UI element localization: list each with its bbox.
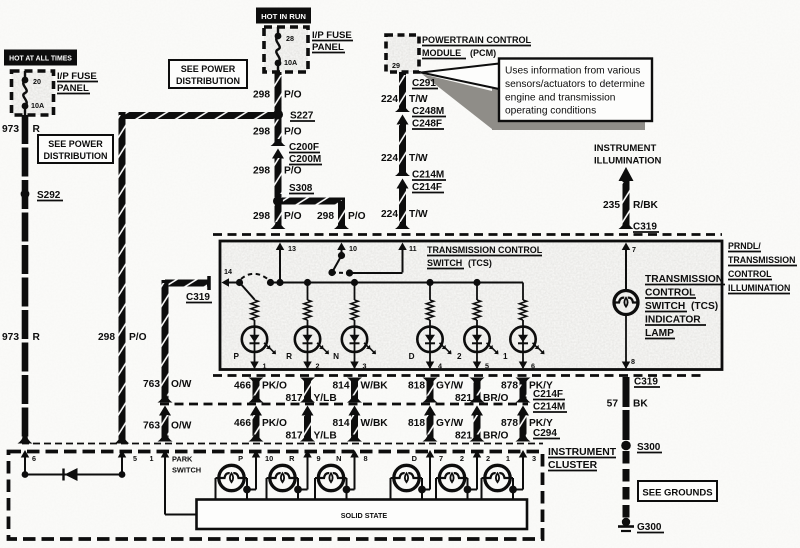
svg-text:I/P FUSE: I/P FUSE bbox=[312, 30, 352, 41]
svg-text:PK/O: PK/O bbox=[262, 418, 287, 429]
svg-text:2: 2 bbox=[460, 454, 464, 463]
svg-text:TRANSMISSION CONTROL: TRANSMISSION CONTROL bbox=[427, 245, 543, 255]
connector C248M/C248F inline bbox=[397, 115, 409, 125]
svg-text:235: 235 bbox=[603, 200, 620, 211]
power feed label HOT IN RUN bbox=[256, 8, 311, 24]
svg-text:R: R bbox=[286, 352, 292, 361]
wire 763 O/W vertical segment 2 bbox=[162, 412, 169, 440]
wire 821 BR/O upper segment bbox=[474, 378, 481, 400]
svg-text:C319: C319 bbox=[634, 377, 658, 388]
svg-text:BR/O: BR/O bbox=[483, 431, 509, 442]
svg-text:S292: S292 bbox=[37, 190, 61, 201]
wire LED P to pin 1 bbox=[254, 352, 256, 368]
lamp R right lead junction bbox=[295, 477, 298, 479]
svg-text:INSTRUMENT: INSTRUMENT bbox=[594, 143, 656, 154]
svg-text:3: 3 bbox=[532, 454, 536, 463]
svg-text:SWITCH: SWITCH bbox=[172, 466, 201, 475]
callout note box bbox=[499, 59, 652, 122]
wire 298 P/O segment C200 to S308 bbox=[275, 155, 282, 197]
ground wire S300 to G300 bbox=[623, 451, 630, 519]
svg-text:Y/LB: Y/LB bbox=[314, 393, 337, 404]
svg-text:operating conditions: operating conditions bbox=[505, 106, 596, 117]
svg-text:1: 1 bbox=[506, 454, 510, 463]
svg-text:763: 763 bbox=[143, 379, 160, 390]
TCS indicator lamp bbox=[614, 291, 638, 315]
svg-text:R/BK: R/BK bbox=[633, 200, 659, 211]
wire 466 PK/O lower segment bbox=[250, 406, 262, 416]
svg-text:28: 28 bbox=[286, 34, 294, 43]
wire 224 T/W segment PCM to C248 bbox=[399, 72, 406, 109]
svg-text:CONTROL: CONTROL bbox=[645, 288, 695, 299]
lamp 1 left lead to solid state bbox=[482, 477, 485, 479]
wire 878 PK/Y upper segment bbox=[520, 378, 527, 400]
TCS pin 7 bbox=[622, 243, 631, 251]
svg-text:DISTRIBUTION: DISTRIBUTION bbox=[176, 76, 240, 86]
connector C200F/C200M inline bbox=[272, 149, 284, 159]
cluster pin 6 entry bbox=[21, 450, 30, 458]
svg-text:298: 298 bbox=[98, 332, 115, 343]
svg-text:10: 10 bbox=[349, 244, 357, 253]
svg-text:O/W: O/W bbox=[171, 379, 192, 390]
svg-text:GY/W: GY/W bbox=[436, 381, 464, 392]
wire 235 R/BK bbox=[623, 179, 630, 229]
svg-text:C200M: C200M bbox=[289, 154, 321, 165]
wire 57 BK bbox=[623, 377, 630, 445]
pin 14 circuit: wire 763 horizontal to C319 bbox=[165, 280, 210, 287]
svg-text:T/W: T/W bbox=[409, 209, 428, 220]
svg-text:R: R bbox=[33, 124, 41, 135]
svg-text:HOT AT ALL TIMES: HOT AT ALL TIMES bbox=[9, 56, 72, 63]
wire 817 Y/LB lower segment bbox=[302, 406, 314, 416]
svg-text:224: 224 bbox=[381, 153, 398, 164]
svg-text:PANEL: PANEL bbox=[57, 83, 89, 94]
svg-text:G300: G300 bbox=[637, 522, 662, 533]
svg-text:P/O: P/O bbox=[284, 127, 302, 138]
svg-text:20: 20 bbox=[33, 77, 41, 86]
instrument cluster connector dashed line bbox=[22, 443, 543, 445]
bus junction x=354.5 bbox=[351, 279, 358, 286]
SOLID STATE module box bbox=[197, 500, 528, 530]
svg-text:S308: S308 bbox=[289, 183, 313, 194]
wire 466 PK/O upper segment bbox=[253, 378, 260, 400]
svg-text:P/O: P/O bbox=[348, 211, 366, 222]
svg-text:INSTRUMENT: INSTRUMENT bbox=[548, 447, 617, 458]
resistor for LED R bbox=[307, 283, 309, 301]
transmission control switch (TCS) box outline bbox=[220, 241, 722, 370]
TCS pin 10 bbox=[337, 243, 346, 251]
lamp D left lead to solid state bbox=[391, 477, 394, 479]
svg-text:10A: 10A bbox=[284, 58, 297, 67]
svg-text:P/O: P/O bbox=[129, 332, 147, 343]
svg-text:973: 973 bbox=[2, 124, 19, 135]
svg-text:R: R bbox=[33, 332, 41, 343]
wire 224 T/W segment C248 to C214 bbox=[399, 121, 406, 173]
svg-text:2: 2 bbox=[316, 362, 320, 371]
svg-text:PK/O: PK/O bbox=[262, 381, 287, 392]
svg-text:BR/O: BR/O bbox=[483, 393, 509, 404]
svg-text:8: 8 bbox=[364, 454, 368, 463]
wire LED 1 to pin 6 bbox=[522, 352, 524, 368]
svg-text:D: D bbox=[409, 352, 415, 361]
svg-text:C248F: C248F bbox=[412, 119, 442, 130]
svg-text:C294: C294 bbox=[533, 428, 557, 439]
svg-text:224: 224 bbox=[381, 209, 398, 220]
svg-text:298: 298 bbox=[253, 90, 270, 101]
svg-text:MODULE: MODULE bbox=[422, 48, 461, 58]
wire 224 T/W segment C214 to C319 bbox=[399, 185, 406, 229]
svg-text:5: 5 bbox=[133, 454, 137, 463]
fuse 20 10A bbox=[24, 71, 26, 79]
svg-text:29: 29 bbox=[392, 61, 400, 70]
svg-text:CLUSTER: CLUSTER bbox=[548, 460, 598, 471]
svg-text:Uses information from various: Uses information from various bbox=[505, 66, 640, 77]
svg-text:817: 817 bbox=[286, 393, 303, 404]
svg-text:466: 466 bbox=[234, 418, 251, 429]
svg-text:1: 1 bbox=[263, 362, 267, 371]
lamp 1 right lead junction bbox=[510, 477, 513, 479]
svg-text:C319: C319 bbox=[633, 222, 657, 233]
wire 298 P/O segment S308 to C319 (left) bbox=[275, 201, 282, 229]
svg-text:973: 973 bbox=[2, 332, 19, 343]
svg-text:O/W: O/W bbox=[171, 421, 192, 432]
svg-text:N: N bbox=[336, 454, 341, 463]
svg-text:878: 878 bbox=[501, 381, 518, 392]
svg-text:2: 2 bbox=[457, 352, 462, 361]
TCS internal bus wire bbox=[271, 282, 524, 284]
svg-text:DISTRIBUTION: DISTRIBUTION bbox=[44, 151, 108, 161]
svg-text:CONTROL: CONTROL bbox=[728, 269, 772, 279]
power feed label HOT AT ALL TIMES bbox=[4, 50, 77, 66]
svg-text:818: 818 bbox=[408, 418, 425, 429]
svg-text:10A: 10A bbox=[31, 101, 44, 110]
LED indicator R bbox=[295, 327, 320, 352]
wire 763 O/W vertical segment 1 bbox=[162, 280, 169, 400]
svg-text:C214F: C214F bbox=[412, 182, 442, 193]
LED indicator N bbox=[342, 327, 367, 352]
TCS pin 13 bbox=[276, 243, 285, 251]
wire LED R to pin 2 bbox=[307, 352, 309, 368]
LED indicator 2 bbox=[464, 327, 489, 352]
wire 298 P/O segment S227 to C200 bbox=[275, 110, 282, 143]
svg-text:4: 4 bbox=[438, 362, 442, 371]
svg-text:2: 2 bbox=[486, 454, 490, 463]
svg-text:C248M: C248M bbox=[412, 106, 444, 117]
cluster pin entry 7 bbox=[426, 450, 435, 458]
I/P fuse panel box (middle) bbox=[264, 27, 308, 72]
resistor for LED 2 bbox=[476, 283, 478, 301]
svg-text:C291: C291 bbox=[412, 78, 436, 89]
bus junction x=477 bbox=[473, 279, 480, 286]
svg-text:817: 817 bbox=[286, 431, 303, 442]
wire 973 R vertical bbox=[22, 115, 29, 443]
svg-text:C319: C319 bbox=[186, 292, 210, 303]
gauge lamp D bbox=[394, 465, 419, 490]
cluster pin entry 8 bbox=[350, 450, 359, 458]
svg-text:Y/LB: Y/LB bbox=[314, 431, 337, 442]
cluster pin entry 10 bbox=[252, 450, 261, 458]
svg-text:1: 1 bbox=[503, 352, 508, 361]
svg-text:ILLUMINATION: ILLUMINATION bbox=[594, 156, 662, 167]
TCS pin 11 bbox=[398, 243, 407, 251]
gauge lamp R bbox=[270, 465, 295, 490]
wire 818 GY/W upper segment bbox=[427, 378, 434, 400]
ground G300 symbol bbox=[622, 518, 630, 526]
svg-text:S300: S300 bbox=[637, 442, 661, 453]
svg-text:SEE POWER: SEE POWER bbox=[48, 139, 103, 149]
svg-text:C200F: C200F bbox=[289, 142, 319, 153]
svg-text:821: 821 bbox=[455, 393, 472, 404]
svg-text:6: 6 bbox=[32, 454, 36, 463]
svg-text:sensors/actuators to determine: sensors/actuators to determine bbox=[505, 79, 645, 90]
wire 821 BR/O lower segment bbox=[471, 406, 483, 416]
svg-text:HOT IN RUN: HOT IN RUN bbox=[261, 12, 306, 21]
svg-text:P/O: P/O bbox=[284, 166, 302, 177]
LED indicator P bbox=[242, 327, 267, 352]
svg-text:T/W: T/W bbox=[409, 94, 428, 105]
svg-text:PRNDL/: PRNDL/ bbox=[728, 241, 761, 251]
svg-text:SOLID STATE: SOLID STATE bbox=[341, 511, 388, 520]
lamp R left lead to solid state bbox=[267, 477, 270, 479]
svg-text:821: 821 bbox=[455, 431, 472, 442]
TCS selector switch upper contact bbox=[338, 252, 345, 259]
svg-text:D: D bbox=[412, 454, 418, 463]
lamp P left lead to solid state bbox=[216, 477, 219, 479]
svg-text:POWERTRAIN CONTROL: POWERTRAIN CONTROL bbox=[422, 35, 532, 45]
wire LED D to pin 4 bbox=[429, 352, 431, 368]
svg-text:P: P bbox=[234, 352, 240, 361]
callout shadow bbox=[492, 67, 645, 130]
instrument cluster box outline bbox=[9, 452, 543, 540]
arrow to instrument illumination bbox=[619, 167, 634, 181]
svg-text:C214M: C214M bbox=[412, 170, 444, 181]
wire 817 Y/LB upper segment bbox=[304, 378, 311, 400]
wire 878 PK/Y lower segment bbox=[517, 406, 529, 416]
SEE GROUNDS box bbox=[638, 481, 717, 501]
svg-text:SWITCH: SWITCH bbox=[645, 301, 685, 312]
powertrain control module (PCM) box bbox=[386, 35, 419, 72]
SEE POWER DISTRIBUTION box (left) bbox=[38, 135, 113, 163]
svg-text:(TCS): (TCS) bbox=[468, 258, 492, 268]
svg-text:298: 298 bbox=[317, 211, 334, 222]
gauge lamp N bbox=[318, 465, 343, 490]
cluster pin entry 2 bbox=[473, 450, 482, 458]
splice S308 junction dot bbox=[273, 196, 283, 206]
svg-text:13: 13 bbox=[288, 244, 296, 253]
TCS pin 14 arrow bbox=[222, 278, 230, 287]
wire 298 P/O left vertical bbox=[119, 112, 126, 443]
svg-text:P/O: P/O bbox=[284, 211, 302, 222]
svg-text:T/W: T/W bbox=[409, 153, 428, 164]
svg-text:P/O: P/O bbox=[284, 90, 302, 101]
splice S292 bbox=[21, 190, 30, 199]
svg-text:R: R bbox=[289, 454, 295, 463]
connector C319 dashed line below TCS box bbox=[213, 374, 705, 377]
bus junction x=280 bbox=[276, 279, 283, 286]
svg-text:6: 6 bbox=[531, 362, 535, 371]
gauge lamp 1 bbox=[485, 465, 510, 490]
lamp P right lead junction bbox=[244, 477, 247, 479]
svg-text:W/BK: W/BK bbox=[361, 381, 389, 392]
lamp N left lead to solid state bbox=[315, 477, 318, 479]
connector C214M/C214F inline bbox=[397, 179, 409, 189]
svg-text:7: 7 bbox=[632, 245, 636, 254]
svg-text:C214M: C214M bbox=[533, 402, 565, 413]
cluster pin 5 entry bbox=[118, 450, 127, 458]
svg-text:1: 1 bbox=[150, 454, 154, 463]
svg-text:TRANSMISSION: TRANSMISSION bbox=[645, 274, 723, 285]
svg-text:5: 5 bbox=[485, 362, 489, 371]
svg-text:BK: BK bbox=[633, 399, 648, 410]
svg-text:SWITCH: SWITCH bbox=[427, 258, 462, 268]
wire LED 2 to pin 5 bbox=[476, 352, 478, 368]
svg-text:(TCS): (TCS) bbox=[691, 301, 718, 312]
svg-text:466: 466 bbox=[234, 381, 251, 392]
resistor for LED P bbox=[254, 299, 256, 302]
svg-text:224: 224 bbox=[381, 94, 398, 105]
resistor for LED 1 bbox=[522, 283, 524, 301]
wire LED N to pin 3 bbox=[354, 352, 356, 368]
splice S227 bbox=[273, 110, 283, 120]
svg-text:PANEL: PANEL bbox=[312, 42, 344, 53]
connector C319 dashed line above TCS box bbox=[213, 233, 722, 236]
wire 763 inline connector bbox=[159, 406, 171, 416]
svg-text:814: 814 bbox=[333, 418, 350, 429]
svg-text:7: 7 bbox=[439, 454, 443, 463]
svg-text:11: 11 bbox=[409, 244, 417, 253]
svg-text:298: 298 bbox=[253, 211, 270, 222]
svg-text:LAMP: LAMP bbox=[645, 328, 674, 339]
svg-text:P: P bbox=[238, 454, 243, 463]
I/P fuse panel box (left) bbox=[12, 71, 54, 115]
diode between pin 6 and pin 5 bbox=[25, 474, 122, 476]
svg-text:(PCM): (PCM) bbox=[470, 48, 496, 58]
gauge lamp P bbox=[219, 465, 244, 490]
park switch wire to solid state bbox=[165, 514, 197, 516]
svg-text:ILLUMINATION: ILLUMINATION bbox=[728, 283, 790, 293]
svg-text:C214F: C214F bbox=[533, 389, 563, 400]
svg-text:814: 814 bbox=[333, 381, 350, 392]
bus junction x=430 bbox=[426, 279, 433, 286]
svg-text:8: 8 bbox=[631, 357, 635, 366]
LED indicator D bbox=[417, 327, 442, 352]
wire 814 W/BK upper segment bbox=[351, 378, 358, 400]
wire 298 P/O horizontal from S227 to left corner bbox=[119, 112, 279, 119]
resistor for LED D bbox=[429, 283, 431, 301]
svg-text:TRANSMISSION: TRANSMISSION bbox=[728, 255, 795, 265]
svg-text:SEE POWER: SEE POWER bbox=[181, 64, 236, 74]
SEE POWER DISTRIBUTION box (middle) bbox=[169, 60, 247, 88]
wire 298 P/O branch vertical to C319 bbox=[338, 201, 345, 229]
svg-text:298: 298 bbox=[253, 127, 270, 138]
svg-text:3: 3 bbox=[363, 362, 367, 371]
fuse 28 10A bbox=[277, 27, 279, 35]
splice S300 bbox=[621, 441, 631, 451]
svg-text:763: 763 bbox=[143, 421, 160, 432]
svg-text:298: 298 bbox=[253, 166, 270, 177]
lamp D right lead junction bbox=[419, 477, 422, 479]
svg-text:14: 14 bbox=[224, 267, 232, 276]
cluster pin entry 9 bbox=[303, 450, 312, 458]
svg-text:W/BK: W/BK bbox=[361, 418, 389, 429]
LED indicator 1 bbox=[510, 327, 535, 352]
lamp 2 left lead to solid state bbox=[436, 477, 439, 479]
wire 814 W/BK lower segment bbox=[349, 406, 361, 416]
wire 298 P/O branch horizontal S308 bbox=[278, 198, 345, 205]
svg-text:9: 9 bbox=[317, 454, 321, 463]
TCS rotary switch wiper bbox=[236, 279, 243, 286]
connector C214 dashed line bbox=[160, 403, 528, 406]
svg-text:SEE GROUNDS: SEE GROUNDS bbox=[642, 488, 712, 499]
callout pointer tail bbox=[421, 64, 499, 90]
gauge lamp 2 bbox=[439, 465, 464, 490]
cluster pin entry 3 bbox=[519, 450, 528, 458]
svg-text:N: N bbox=[333, 352, 339, 361]
svg-text:818: 818 bbox=[408, 381, 425, 392]
TCS pin 8 wire bbox=[625, 315, 627, 369]
svg-text:PARK: PARK bbox=[172, 455, 193, 464]
lamp 2 right lead junction bbox=[465, 477, 468, 479]
resistor for LED N bbox=[354, 283, 356, 301]
svg-text:57: 57 bbox=[607, 399, 619, 410]
svg-text:10: 10 bbox=[265, 454, 273, 463]
svg-text:878: 878 bbox=[501, 418, 518, 429]
TCS switch box interior shading bbox=[220, 241, 722, 369]
svg-text:INDICATOR: INDICATOR bbox=[645, 315, 701, 326]
svg-text:S227: S227 bbox=[290, 111, 314, 122]
wire 298 P/O segment fuse to S227 bbox=[275, 72, 282, 111]
lamp N right lead junction bbox=[344, 477, 347, 479]
svg-text:engine and transmission: engine and transmission bbox=[505, 93, 615, 104]
wire 818 GY/W lower segment bbox=[424, 406, 436, 416]
bus junction x=307.5 bbox=[304, 279, 311, 286]
cluster pin 1 entry (park switch) bbox=[161, 450, 170, 458]
svg-text:I/P FUSE: I/P FUSE bbox=[57, 71, 97, 82]
svg-text:GY/W: GY/W bbox=[436, 418, 464, 429]
